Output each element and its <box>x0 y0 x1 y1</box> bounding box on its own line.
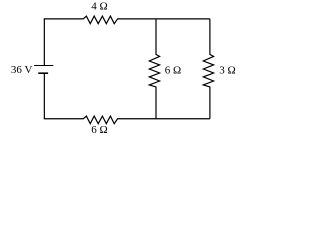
svg-text:4 Ω: 4 Ω <box>91 1 107 13</box>
svg-text:3 Ω: 3 Ω <box>219 64 235 76</box>
svg-text:6 Ω: 6 Ω <box>165 64 181 76</box>
svg-text:6 Ω: 6 Ω <box>91 124 107 136</box>
svg-text:36 V: 36 V <box>11 64 33 76</box>
